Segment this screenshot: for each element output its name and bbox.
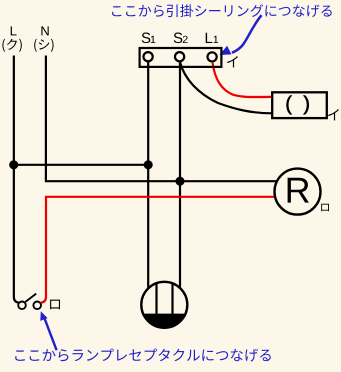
switch contact left bbox=[18, 302, 26, 310]
wire: black curve from S2 to ceiling box bbox=[180, 62, 272, 113]
terminal L1 screw bbox=[208, 52, 217, 61]
node L (line, black wire) label bbox=[11, 26, 17, 35]
terminal S1 screw bbox=[144, 52, 153, 61]
wire: red curve from L1 to ceiling box bbox=[213, 63, 273, 97]
label (shi) white bbox=[34, 39, 53, 52]
note: connect from here to hikkake-ceiling (blue) bbox=[112, 4, 332, 17]
label i (katakana) at ceiling box bbox=[328, 109, 339, 120]
label i (katakana) at terminal block bbox=[227, 56, 238, 67]
junction dot on L wire bbox=[9, 160, 18, 169]
hikkake ceiling (kaku) fixture box, circuit i bbox=[272, 92, 327, 118]
wire: L source vertical down to switch left contact bbox=[14, 56, 19, 303]
pin label S2 bbox=[174, 33, 188, 44]
wire: S1 terminal down to lamp symbol bbox=[147, 62, 149, 289]
pin label S1 bbox=[142, 33, 156, 44]
lamp fixture symbol (circle, two bars, filled base) bbox=[141, 282, 187, 328]
blue arrow pointing to terminal L1 bbox=[220, 15, 262, 55]
junction dot on S1 wire bbox=[144, 160, 153, 169]
switch contact right bbox=[33, 302, 41, 310]
wire: S2 terminal down to lamp symbol bbox=[179, 62, 181, 288]
switch lever arm bbox=[25, 294, 36, 303]
pin label L1 bbox=[206, 33, 218, 43]
label (ku) black bbox=[2, 39, 21, 52]
load R (circle with R), circuit ro bbox=[275, 169, 321, 215]
label ro (katakana) at switch bbox=[50, 300, 60, 310]
wire: N source vertical, elbow right to resistance R (neutral bus) bbox=[46, 56, 277, 182]
label ro (katakana) at R bbox=[321, 204, 329, 212]
( ) symbol inside ceiling box bbox=[287, 96, 309, 115]
blue arrow pointing to switch right contact bbox=[40, 311, 56, 350]
node N (neutral, white wire) label bbox=[41, 26, 48, 35]
terminal S2 screw bbox=[175, 52, 184, 61]
wire: L bus horizontal from L wire to S1 wire bbox=[14, 164, 148, 166]
note: connect from here to lamp receptacle (blue) bbox=[15, 349, 271, 362]
junction dot on S2 wire / neutral bus bbox=[175, 177, 184, 186]
wire: red from neutral-side elbow to R circle and down to switch right contact bbox=[41, 197, 276, 303]
terminal block TB1 (time switch S1 S2 L1) bbox=[140, 48, 222, 67]
